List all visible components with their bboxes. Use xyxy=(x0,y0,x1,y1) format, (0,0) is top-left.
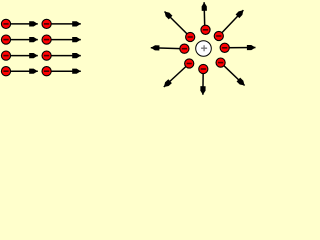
negative charge row2 col1 xyxy=(1,35,10,44)
wire: row4 arrow2 xyxy=(47,70,81,72)
negative charge ring NE xyxy=(214,31,223,40)
negative charge ring E xyxy=(220,43,229,52)
negative charge row4 col2 xyxy=(42,67,51,76)
wire: row1 arrow2 xyxy=(47,23,81,25)
negative charge ring NW xyxy=(186,32,195,41)
negative charge row3 col1 xyxy=(1,51,10,60)
wire: row2 arrow1 xyxy=(6,39,38,41)
wire: radial arrow SE xyxy=(221,63,245,86)
positive charge (center) xyxy=(196,41,212,57)
negative charge ring W xyxy=(180,44,189,53)
negative charge row1 col2 xyxy=(42,19,51,28)
negative charge ring S xyxy=(199,64,208,73)
wire: row1 arrow1 xyxy=(6,23,38,25)
wire: radial arrow SW xyxy=(164,64,189,88)
negative charge ring SW xyxy=(185,59,194,68)
wire: radial arrow NW xyxy=(165,12,191,38)
negative charge row2 col2 xyxy=(42,35,51,44)
negative charge ring SE xyxy=(216,58,225,67)
wire: radial arrow S xyxy=(202,69,204,95)
wire: radial arrow W xyxy=(151,48,185,49)
wire: row2 arrow2 xyxy=(47,39,81,41)
wire: radial arrow N xyxy=(203,2,206,30)
negative charge row4 col1 xyxy=(1,67,10,76)
negative charge ring N xyxy=(201,25,210,34)
negative charge row3 col2 xyxy=(42,51,51,60)
wire: row3 arrow2 xyxy=(47,55,81,57)
wire: row4 arrow1 xyxy=(6,70,38,72)
negative charge row1 col1 xyxy=(1,19,10,28)
wire: radial arrow NE xyxy=(219,10,244,36)
wire: row3 arrow1 xyxy=(6,55,38,57)
wire: radial arrow E xyxy=(225,47,256,49)
